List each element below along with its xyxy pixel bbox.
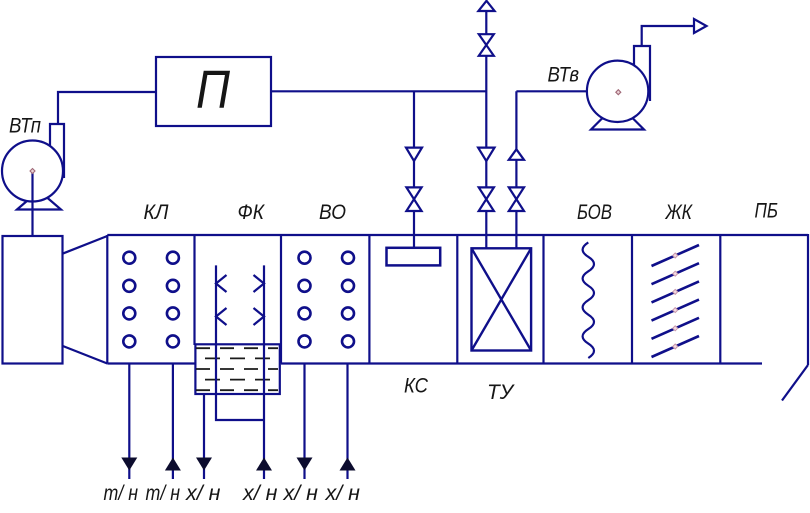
outlet flap (open damper) bottom right (782, 365, 808, 401)
humidifier BOV wavy element (583, 242, 594, 358)
discharge arrow (694, 19, 707, 33)
svg-text:х/ н: х/ н (282, 482, 318, 505)
label h/n pipe 5 (282, 482, 318, 505)
heater KL coil circles (123, 252, 179, 348)
wire to exhaust fan VTv (516, 90, 586, 92)
supply fan VTp housing (2, 141, 63, 202)
funnel bottom diagonal (63, 346, 108, 364)
flow arrow up pipe 4 (256, 458, 272, 471)
louver pivot dots (673, 253, 678, 349)
svg-text:х/ н: х/ н (242, 482, 278, 505)
label FK (238, 201, 266, 224)
flow arrow up pipe 2 (165, 458, 181, 471)
svg-text:т/ н: т/ н (104, 482, 139, 505)
funnel top diagonal (63, 236, 108, 254)
flow arrow down pipe 5 (297, 458, 313, 471)
svg-text:ВО: ВО (319, 201, 346, 224)
section divider BOV/ZhK (631, 235, 633, 364)
label TU (487, 381, 516, 404)
air handling unit bottom wall (left of tank) (107, 362, 196, 364)
label h/n pipe 3 (185, 482, 221, 505)
svg-text:ФК: ФК (238, 201, 266, 224)
label BOV (577, 201, 612, 224)
drain pipe 6 (VO col 2) (346, 364, 348, 480)
controller P box (156, 57, 271, 126)
section divider FK/VO (280, 235, 282, 364)
louver ZhK slats (652, 245, 700, 357)
heat exchanger TU box with X (472, 248, 532, 350)
main wire from P box to exhaust fan (271, 90, 486, 92)
shut-off valve (bowtie) on exhaust stack (479, 34, 494, 56)
svg-text:ЖК: ЖК (665, 201, 694, 224)
valve line C (515, 91, 517, 248)
spray chamber water tank (195, 344, 279, 394)
drain pipe 2 (KL col 2) (172, 364, 174, 480)
shut-off valve (bowtie) line A (406, 187, 421, 211)
supply fan VTp hub dot (30, 169, 35, 174)
svg-text:П: П (196, 60, 231, 120)
exhaust fan VTv outlet duct (634, 46, 650, 101)
check valve (down triangle) line B (478, 148, 494, 161)
exhaust fan VTv base (591, 119, 644, 130)
svg-text:БОВ: БОВ (577, 201, 612, 224)
spray pipe right (263, 265, 265, 394)
exhaust fan VTv housing (587, 61, 648, 122)
label t/n pipe 2 (146, 482, 181, 505)
drain pipe 1 (KL col 1) (128, 364, 130, 480)
flow arrow up pipe 6 (340, 458, 356, 471)
label t/n pipe 1 (104, 482, 139, 505)
spray nozzle chevrons left pipe (216, 275, 227, 325)
shut-off valve (bowtie) line B (479, 187, 494, 211)
section divider TU/BOV (542, 235, 544, 364)
svg-text:х/ н: х/ н (185, 482, 221, 505)
label KL (144, 201, 170, 224)
svg-text:ВТв: ВТв (548, 63, 580, 86)
exhaust stack outlet arrow (478, 1, 494, 11)
check valve (down triangle) line A (406, 148, 422, 161)
intake box (3, 236, 63, 364)
flow arrow down pipe 3 (196, 458, 212, 471)
label KS (404, 375, 429, 398)
spray nozzle chevrons right pipe (254, 275, 265, 325)
supply fan VTp shaft line to intake box (31, 171, 33, 236)
spray pipe left (215, 265, 217, 394)
drain pipe 4 (tank U) (263, 394, 265, 479)
label h/n pipe 4 (242, 482, 278, 505)
label ZhK (665, 201, 694, 224)
supply fan VTp outlet duct (50, 124, 64, 178)
exhaust stack vertical pipe (valve line B upper) (485, 11, 487, 249)
svg-text:ВТп: ВТп (9, 115, 41, 138)
svg-text:КЛ: КЛ (144, 201, 170, 224)
damper KS box (387, 248, 441, 266)
air handling unit right wall (807, 234, 809, 365)
svg-text:ТУ: ТУ (487, 381, 516, 404)
section divider KS/TU (456, 235, 458, 364)
flow arrow down pipe 1 (121, 458, 137, 471)
cooler VO coil circles (299, 252, 355, 348)
drain pipe 3 (tank) (203, 394, 205, 479)
supply fan VTp base (17, 198, 61, 210)
label VO (319, 201, 346, 224)
shut-off valve (bowtie) line C (509, 187, 524, 211)
drain pipe 5 (VO col 1) (303, 364, 305, 480)
label h/n pipe 6 (324, 482, 360, 505)
label VTv (548, 63, 580, 86)
label PB (755, 200, 779, 223)
air handling unit bottom wall (right of tank) (281, 362, 762, 364)
drain pan U pipe below tank (216, 394, 264, 420)
valve line A (413, 91, 415, 248)
air handling unit left wall (106, 235, 108, 364)
section divider KL/FK (193, 235, 195, 345)
section divider ZhK/PB (719, 235, 721, 364)
label P (controller) (196, 60, 231, 120)
water level dashes in tank (196, 348, 278, 390)
svg-text:КС: КС (404, 375, 429, 398)
svg-text:т/ н: т/ н (146, 482, 181, 505)
exhaust fan VTv hub dot (616, 90, 621, 95)
wire from P box to supply fan (58, 92, 156, 124)
air handling unit casing top wall (107, 234, 808, 236)
check valve (up triangle) line C (509, 149, 524, 160)
svg-text:ПБ: ПБ (755, 200, 779, 223)
section divider VO/KS (368, 235, 370, 364)
label VTp (9, 115, 41, 138)
svg-text:х/ н: х/ н (324, 482, 360, 505)
exhaust fan VTv discharge pipe (642, 26, 694, 46)
